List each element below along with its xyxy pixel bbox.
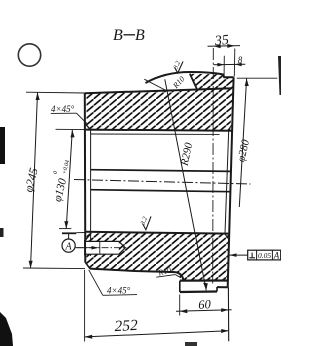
svg-text:8: 8 bbox=[238, 55, 243, 65]
svg-text:B: B bbox=[113, 27, 123, 44]
tolerance frame bbox=[248, 250, 281, 260]
part top edge line A bbox=[85, 88, 232, 93]
chamfer bottom-right bore bbox=[225, 234, 230, 240]
setscrew hole outline bbox=[84, 241, 125, 254]
R290 arrowhead bbox=[203, 283, 208, 291]
crown arc R290 top profile bbox=[146, 72, 234, 83]
setscrew hole white patch bbox=[84, 241, 119, 254]
chamfer bottom-left outer bbox=[85, 262, 90, 269]
R290 radius line bbox=[165, 79, 206, 290]
svg-text:4×45°: 4×45° bbox=[107, 286, 131, 296]
svg-text:60: 60 bbox=[198, 297, 212, 312]
svg-text:35: 35 bbox=[213, 33, 229, 49]
vertical centerline of crown bbox=[212, 48, 215, 284]
svg-text:252: 252 bbox=[114, 317, 138, 335]
tolerance frame leader bbox=[230, 254, 248, 256]
title dash bbox=[124, 34, 136, 36]
roughness symbol top bbox=[175, 62, 183, 74]
phi130 dimension line bbox=[66, 130, 72, 229]
chamfer top-right bore bbox=[228, 124, 232, 130]
lower step line bbox=[180, 290, 217, 293]
white pocket around R10 label bbox=[144, 73, 198, 92]
dim 252 bbox=[84, 270, 86, 342]
datum surface extension bbox=[76, 232, 85, 234]
hatched rim top band bbox=[87, 74, 234, 131]
scan artifact punch hole bbox=[18, 44, 40, 66]
phi130 extension top bbox=[56, 128, 87, 130]
bore top line bbox=[86, 130, 232, 131]
datum leader to hole bbox=[75, 247, 97, 249]
step upper line bbox=[217, 286, 228, 288]
datum bar bbox=[62, 232, 76, 234]
phi280 dimension line bbox=[239, 79, 246, 208]
setscrew thread line bbox=[99, 241, 101, 254]
dim 35 line bbox=[208, 45, 241, 48]
section title B—B bbox=[113, 27, 145, 44]
step riser bbox=[216, 287, 218, 292]
split joint upper line bbox=[91, 170, 231, 172]
dim 60 bbox=[179, 295, 181, 316]
left face line over hole bbox=[84, 240, 86, 256]
inner chamfer line right bbox=[225, 130, 229, 233]
scan artifact bottom-left blob bbox=[0, 312, 13, 346]
chamfer top-left bore bbox=[85, 124, 91, 130]
chamfer bottom-left bore bbox=[85, 234, 91, 241]
phi280 extension top bbox=[237, 77, 277, 79]
R10 rounded corner bottom bbox=[176, 272, 184, 281]
groove chamfer diagonal E bbox=[190, 74, 197, 90]
perpendicular symbol bbox=[251, 253, 253, 258]
phi245 extension bottom bbox=[23, 267, 85, 270]
svg-text:4×45°: 4×45° bbox=[51, 104, 75, 114]
datum stem bbox=[68, 233, 70, 239]
phi245 extension top bbox=[26, 91, 85, 94]
inner chamfer line left bbox=[90, 130, 92, 256]
svg-text:A: A bbox=[65, 242, 73, 253]
dim 8 line bbox=[214, 63, 246, 66]
bore top chamfer thin line bbox=[91, 133, 220, 135]
dim 8 left extension bbox=[223, 56, 225, 76]
bottom edge of part bbox=[90, 269, 176, 273]
axis centerline bbox=[74, 180, 251, 185]
notch left wall bbox=[179, 281, 181, 292]
scan artifact bottom speck bbox=[185, 342, 197, 346]
scan artifact right sliver bbox=[278, 56, 281, 95]
scan artifact left bar bbox=[0, 127, 5, 164]
right edge of part bbox=[228, 77, 234, 287]
setscrew hole centerline bbox=[77, 247, 127, 249]
thin leader F bbox=[144, 79, 166, 90]
phi245 dimension line bbox=[31, 93, 38, 269]
hatched rim bottom band bbox=[87, 233, 229, 280]
scan artifact left small bbox=[0, 228, 4, 237]
phi130 extension bottom bbox=[59, 228, 71, 230]
notch bottom edge of hatch bbox=[180, 279, 228, 281]
roughness symbol bottom bbox=[143, 216, 151, 229]
dim 35 right extension bbox=[233, 49, 236, 77]
split joint lower line bbox=[91, 190, 231, 192]
svg-text:B: B bbox=[135, 27, 145, 44]
datum A circle bbox=[62, 239, 75, 252]
bore bottom line bbox=[86, 232, 230, 234]
svg-text:0.05: 0.05 bbox=[258, 251, 271, 260]
left face of part bbox=[84, 93, 87, 262]
svg-text:A: A bbox=[273, 251, 280, 261]
